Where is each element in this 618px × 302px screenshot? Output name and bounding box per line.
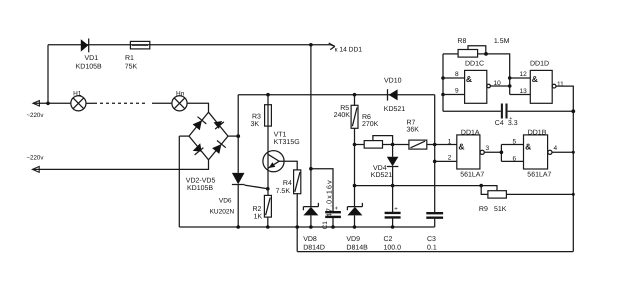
svg-text:VD4: VD4 xyxy=(373,165,387,172)
svg-text:C2: C2 xyxy=(384,236,393,243)
svg-text:+: + xyxy=(394,206,398,212)
svg-text:R7: R7 xyxy=(407,119,416,126)
svg-text:VD6: VD6 xyxy=(219,198,232,205)
svg-text:7.5K: 7.5K xyxy=(276,188,291,195)
svg-text:100.0: 100.0 xyxy=(384,244,402,251)
svg-text:&: & xyxy=(458,142,464,152)
svg-text:R1: R1 xyxy=(125,55,134,62)
svg-text:240K: 240K xyxy=(334,112,351,119)
svg-text:C1: C1 xyxy=(322,221,329,230)
svg-text:R3: R3 xyxy=(252,114,261,121)
svg-text:к 14 DD1: к 14 DD1 xyxy=(335,46,363,53)
svg-text:&: & xyxy=(532,74,538,84)
svg-text:R8: R8 xyxy=(457,38,466,45)
svg-text:36K: 36K xyxy=(407,127,420,134)
svg-text:C3: C3 xyxy=(427,236,436,243)
svg-text:&: & xyxy=(525,142,531,152)
svg-text:DD1C: DD1C xyxy=(465,61,484,68)
svg-text:D814D: D814D xyxy=(303,244,325,251)
svg-text:6: 6 xyxy=(513,156,517,163)
svg-text:KD521: KD521 xyxy=(384,106,406,113)
svg-text:~220v: ~220v xyxy=(26,154,44,161)
svg-text:1: 1 xyxy=(448,138,452,145)
svg-text:KU202N: KU202N xyxy=(210,208,235,215)
svg-text:11: 11 xyxy=(557,81,564,88)
svg-text:270K: 270K xyxy=(362,121,379,128)
svg-text:VD9: VD9 xyxy=(346,236,360,243)
svg-text:0.1: 0.1 xyxy=(427,244,437,251)
svg-text:KD105B: KD105B xyxy=(76,64,102,71)
svg-text:VD2-VD5: VD2-VD5 xyxy=(186,177,216,184)
svg-text:561LA7: 561LA7 xyxy=(460,172,484,179)
svg-text:R6: R6 xyxy=(362,114,371,121)
svg-text:&: & xyxy=(466,74,472,84)
svg-text:2: 2 xyxy=(448,155,452,162)
svg-text:R5: R5 xyxy=(340,105,349,112)
svg-text:47.0x16v: 47.0x16v xyxy=(325,179,334,217)
svg-text:Hn: Hn xyxy=(176,91,185,98)
svg-text:KD521: KD521 xyxy=(371,172,393,179)
svg-text:13: 13 xyxy=(520,88,528,95)
svg-text:VD1: VD1 xyxy=(85,55,99,62)
svg-text:VD10: VD10 xyxy=(384,78,402,85)
svg-text:DD1A: DD1A xyxy=(461,129,480,136)
svg-text:VD8: VD8 xyxy=(303,236,317,243)
svg-text:561LA7: 561LA7 xyxy=(527,172,551,179)
svg-text:1K: 1K xyxy=(254,213,263,220)
svg-text:R4: R4 xyxy=(283,180,292,187)
svg-text:R2: R2 xyxy=(253,206,262,213)
svg-text:KT315G: KT315G xyxy=(274,139,300,146)
svg-text:VT1: VT1 xyxy=(274,132,287,139)
svg-text:1.5M: 1.5M xyxy=(494,38,510,45)
svg-text:3.3: 3.3 xyxy=(508,120,518,127)
svg-text:DD1D: DD1D xyxy=(530,61,549,68)
svg-text:C4: C4 xyxy=(495,120,504,127)
svg-text:+: + xyxy=(335,206,339,212)
svg-text:9: 9 xyxy=(455,88,459,95)
svg-text:3: 3 xyxy=(486,145,490,152)
svg-text:51K: 51K xyxy=(494,206,507,213)
svg-text:H1: H1 xyxy=(73,91,82,98)
svg-text:3K: 3K xyxy=(251,121,260,128)
svg-text:~220v: ~220v xyxy=(26,112,44,119)
svg-text:D814B: D814B xyxy=(346,244,368,251)
svg-text:4: 4 xyxy=(554,145,558,152)
svg-text:KD105B: KD105B xyxy=(187,185,213,192)
svg-text:DD1B: DD1B xyxy=(528,129,547,136)
svg-text:R9: R9 xyxy=(479,206,488,213)
svg-text:12: 12 xyxy=(520,71,528,78)
svg-text:10: 10 xyxy=(494,80,502,87)
svg-text:5: 5 xyxy=(513,138,517,145)
svg-text:75K: 75K xyxy=(125,64,138,71)
svg-text:8: 8 xyxy=(455,71,459,78)
